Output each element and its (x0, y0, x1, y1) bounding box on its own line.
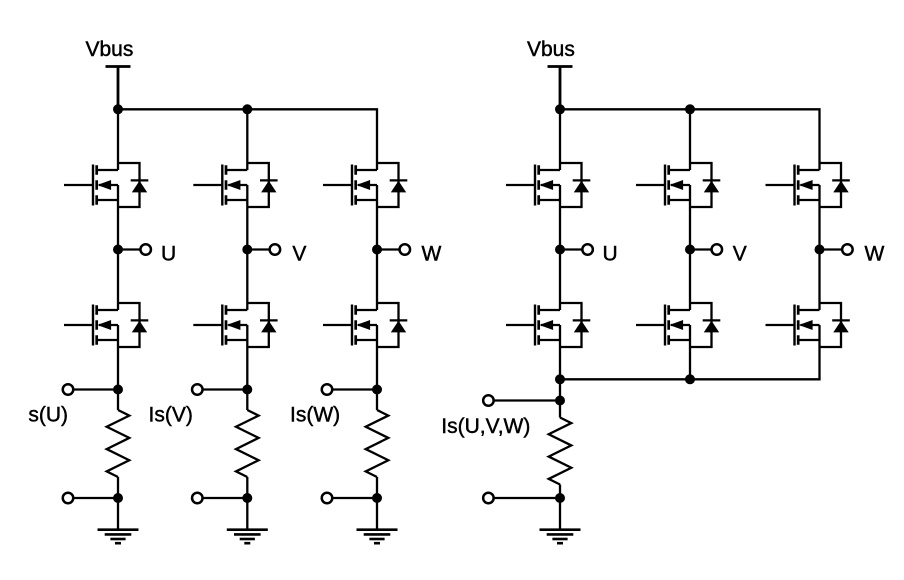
node: common rail junction U (555, 374, 565, 384)
svg-text:U: U (603, 242, 618, 265)
transistor Q5 (W high-side) (323, 163, 407, 207)
terminal: phase W (400, 244, 411, 255)
node: common rail junction V (685, 374, 695, 384)
wire: bottom sense tap U (68, 497, 118, 499)
ground (leg U) (98, 530, 139, 544)
terminal: sense s(U) top (63, 384, 74, 395)
wire: phase W tap (right) (820, 248, 848, 250)
transistor Q6 (W low-side) (323, 303, 407, 347)
wire: Q6 source to shunt W (376, 325, 378, 410)
transistor Q8 (U low-side, right) (506, 303, 590, 347)
node: shunt V bottom junction (242, 493, 252, 503)
svg-text:Vbus: Vbus (527, 38, 575, 61)
terminal: phase V (270, 244, 281, 255)
node: bus junction leg V (242, 104, 252, 114)
transistor Q11 (W high-side, right) (766, 163, 850, 207)
svg-text:Vbus: Vbus (86, 38, 134, 61)
node: shunt top junction (right) (555, 396, 565, 406)
wire: Q4 source to shunt V (246, 325, 248, 410)
wire: Q7 source to Q8 drain (phase U rail, right) (559, 185, 561, 310)
wire: bottom sense tap (right) (488, 497, 560, 499)
wire: Q1 source to Q2 drain (phase U rail) (117, 185, 119, 310)
wire: Q3 source to Q4 drain (phase V rail) (246, 185, 248, 310)
wire: phase W tap (377, 248, 405, 250)
terminal: sense Is(V) bottom (192, 493, 203, 504)
svg-text:Is(W): Is(W) (290, 404, 340, 427)
wire: Q11 source to Q12 drain (phase W rail, right) (818, 185, 820, 310)
resistor: shunt U (107, 410, 130, 477)
node: bus junction leg U (right) (555, 104, 565, 114)
node: shunt U bottom junction (113, 493, 123, 503)
wire: Q2 source to shunt U (117, 325, 119, 410)
wire: ground stub leg V (246, 498, 248, 530)
node: shunt W top junction (372, 385, 382, 395)
node: phase V junction (right) (685, 245, 695, 255)
transistor Q9 (V high-side, right) (636, 163, 720, 207)
svg-text:U: U (161, 242, 176, 265)
wire: shunt W sense tap (327, 388, 377, 390)
wire: common shunt bottom to ground node (559, 485, 561, 499)
wire: Q10 source to common rail (689, 325, 691, 379)
terminal: sense s(U) bottom (63, 493, 74, 504)
svg-text:V: V (733, 242, 747, 265)
Vbus supply terminal (left) (106, 67, 131, 110)
ground (leg W) (357, 530, 398, 544)
node: shunt V top junction (242, 385, 252, 395)
terminal: phase U (right) (582, 244, 593, 255)
wire: Q8 source through common rail to shunt (559, 325, 561, 418)
node: common shunt bottom junction (555, 493, 565, 503)
terminal: sense Is(V) top (192, 384, 203, 395)
ground (right bridge) (540, 530, 581, 544)
wire: Q5 source to Q6 drain (phase W rail) (376, 185, 378, 310)
wire: bottom sense tap V (197, 497, 247, 499)
wire: ground stub leg W (376, 498, 378, 530)
wire: phase U tap (right) (560, 248, 588, 250)
transistor Q2 (U low-side) (64, 303, 148, 347)
svg-text:V: V (292, 242, 306, 265)
node: shunt U top junction (113, 385, 123, 395)
wire: bottom sense tap W (327, 497, 377, 499)
wire: phase V tap (247, 248, 275, 250)
wire: shunt V sense tap (197, 388, 247, 390)
svg-text:Is(U,V,W): Is(U,V,W) (441, 415, 530, 438)
wire: shunt U sense tap (68, 388, 118, 390)
svg-text:Is(V): Is(V) (149, 404, 193, 427)
terminal: sense Is(U,V,W) top (483, 395, 494, 406)
terminal: phase U (140, 244, 151, 255)
ground (leg V) (227, 530, 268, 544)
svg-text:W: W (865, 242, 885, 265)
transistor Q3 (V high-side) (193, 163, 277, 207)
resistor: shunt W (366, 410, 389, 477)
node: phase U junction (right) (555, 245, 565, 255)
wire: drain leg V high-side (246, 109, 248, 170)
svg-text:W: W (422, 242, 442, 265)
wire: common source rail (560, 325, 820, 379)
node: phase U junction (113, 245, 123, 255)
resistor: common shunt (549, 418, 572, 485)
terminal: phase W (right) (842, 244, 853, 255)
Vbus supply terminal (right) (548, 67, 573, 110)
transistor Q4 (V low-side) (193, 303, 277, 347)
wire: phase V tap (right) (690, 248, 717, 250)
wire: DC bus (left) (118, 109, 377, 170)
node: phase W junction (right) (815, 245, 825, 255)
wire: drain leg U high-side (117, 109, 119, 170)
svg-text:s(U): s(U) (28, 404, 68, 427)
transistor Q12 (W low-side, right) (766, 303, 850, 347)
wire: ground stub leg U (117, 498, 119, 530)
terminal: phase V (right) (712, 244, 723, 255)
node: bus junction leg U (113, 104, 123, 114)
wire: DC bus (right) (560, 109, 820, 170)
terminal: sense Is(W) top (322, 384, 333, 395)
terminal: sense Is(U,V,W) bottom (483, 493, 494, 504)
resistor: shunt V (236, 410, 259, 477)
node: shunt W bottom junction (372, 493, 382, 503)
transistor Q1 (U high-side) (64, 163, 148, 207)
transistor Q7 (U high-side, right) (506, 163, 590, 207)
wire: shunt W bottom to ground node (376, 477, 378, 498)
wire: shunt U bottom to ground node (117, 477, 119, 498)
wire: ground stub (right) (559, 498, 561, 530)
transistor Q10 (V low-side, right) (636, 303, 720, 347)
node: phase V junction (242, 245, 252, 255)
wire: drain leg U high-side (right) (559, 109, 561, 170)
wire: shunt sense tap (right) (488, 399, 560, 401)
node: phase W junction (372, 245, 382, 255)
wire: phase U tap (118, 248, 146, 250)
wire: shunt V bottom to ground node (246, 477, 248, 498)
wire: drain leg V high-side (right) (689, 109, 691, 170)
wire: Q9 source to Q10 drain (phase V rail, right) (689, 185, 691, 310)
node: bus junction leg V (right) (685, 104, 695, 114)
terminal: sense Is(W) bottom (322, 493, 333, 504)
